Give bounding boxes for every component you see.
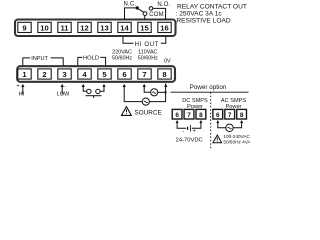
svg-text:14: 14 xyxy=(120,24,129,33)
svg-text:LOW: LOW xyxy=(57,92,70,98)
terminal 7 xyxy=(138,69,151,79)
220V source wire (terminal 6 to 8) xyxy=(123,84,166,102)
terminal 5 xyxy=(98,69,111,79)
svg-text:INPUT: INPUT xyxy=(31,56,48,62)
svg-text:24-70VDC: 24-70VDC xyxy=(176,138,203,144)
AC source symbol 220V xyxy=(142,98,149,105)
terminal 4 xyxy=(78,69,91,79)
svg-text:HOLD: HOLD xyxy=(83,56,99,62)
svg-text:13: 13 xyxy=(100,24,108,33)
terminal 15 xyxy=(138,22,151,32)
svg-text:N.O.: N.O. xyxy=(157,2,170,8)
hold switch between terminals 4-5 xyxy=(82,84,106,98)
battery symbol xyxy=(188,125,191,132)
svg-text:8: 8 xyxy=(240,112,244,119)
svg-text:8: 8 xyxy=(162,70,166,79)
svg-text:6: 6 xyxy=(122,70,126,79)
AC supply wiring xyxy=(216,120,243,128)
svg-text:RELAY CONTACT OUT: RELAY CONTACT OUT xyxy=(177,3,247,10)
svg-text:2: 2 xyxy=(42,70,46,79)
terminal 2 xyxy=(38,69,51,79)
svg-text:Power option: Power option xyxy=(190,84,227,91)
HOLD bracket over terminals 4-5 xyxy=(78,57,83,65)
svg-text:6: 6 xyxy=(175,112,179,119)
table divider (dashed) xyxy=(210,92,212,149)
svg-text:11: 11 xyxy=(60,24,69,33)
svg-text:RESISTIVE LOAD: RESISTIVE LOAD xyxy=(176,18,230,25)
wire COM to terminal 15 xyxy=(144,16,146,20)
warning triangle source xyxy=(122,107,132,116)
svg-text:COM: COM xyxy=(149,12,164,18)
svg-text:+: + xyxy=(16,84,19,90)
DC terminal 8 xyxy=(196,109,206,119)
110V source wire (terminal 7 to 8) xyxy=(143,84,168,93)
svg-text:100-240VAC: 100-240VAC xyxy=(223,134,250,139)
relay switch blade xyxy=(138,8,144,12)
terminal 14 xyxy=(118,22,131,32)
terminal 1 xyxy=(18,69,31,79)
terminal 12 xyxy=(78,22,91,32)
top terminal strip (terminals 9-16) xyxy=(15,20,176,37)
input LOW lead (terminal 3) xyxy=(61,84,64,95)
svg-text:3: 3 xyxy=(62,70,66,79)
AC terminal 7 xyxy=(225,109,235,119)
bottom terminal strip (terminals 1-8) xyxy=(17,66,175,82)
DC supply wiring xyxy=(176,120,203,128)
svg-text:HI: HI xyxy=(19,92,25,98)
svg-text:9: 9 xyxy=(22,24,26,33)
terminal 11 xyxy=(58,22,71,32)
terminal 6 xyxy=(118,69,131,79)
svg-text:10: 10 xyxy=(40,24,48,33)
AC terminal 8 xyxy=(237,109,247,119)
svg-text:7: 7 xyxy=(228,112,232,119)
svg-text:220VAC: 220VAC xyxy=(112,49,132,55)
svg-text:N.C.: N.C. xyxy=(124,1,137,7)
DC terminal 6 xyxy=(172,109,182,119)
terminal 3 xyxy=(58,69,71,79)
svg-text:-: - xyxy=(182,129,184,135)
COM contact circle xyxy=(143,12,147,16)
N.C. contact dot xyxy=(136,6,139,9)
INPUT bracket over terminals 1-3 xyxy=(23,58,30,66)
HI OUT bracket under terminals 14-16 xyxy=(123,37,134,44)
AC source symbol power xyxy=(226,124,233,131)
svg-text:DC SMPS: DC SMPS xyxy=(182,98,208,104)
svg-text:12: 12 xyxy=(80,24,88,33)
svg-text:7: 7 xyxy=(142,70,146,79)
svg-text:15: 15 xyxy=(140,24,149,33)
AC terminal 6 xyxy=(213,109,223,119)
terminal 10 xyxy=(38,22,51,32)
junction dot terminal 8 wire xyxy=(165,91,167,93)
svg-text:-: - xyxy=(64,83,66,89)
svg-text:HI OUT: HI OUT xyxy=(135,42,160,48)
AC source symbol 110V xyxy=(151,89,158,96)
input HI lead (terminal 1) xyxy=(21,84,24,95)
table header line xyxy=(171,91,249,93)
wire N.O. to terminal 16 xyxy=(153,8,166,19)
svg-text:SOURCE: SOURCE xyxy=(134,109,161,116)
svg-text:16: 16 xyxy=(160,24,168,33)
svg-text:8: 8 xyxy=(199,112,203,119)
terminal 8 xyxy=(158,69,171,79)
N.O. contact circle xyxy=(149,7,153,11)
svg-text:110VAC: 110VAC xyxy=(138,49,157,55)
svg-text:AC SMPS: AC SMPS xyxy=(221,98,246,104)
wire terminal14 to N.C. contact xyxy=(125,8,136,20)
svg-text:50/60Hz: 50/60Hz xyxy=(112,56,132,62)
svg-text:0V: 0V xyxy=(164,58,171,64)
terminal 16 xyxy=(158,22,171,32)
svg-text:50/60Hz 4VA: 50/60Hz 4VA xyxy=(223,140,250,145)
svg-text:: 250VAC 3A 1c: : 250VAC 3A 1c xyxy=(176,11,223,18)
svg-text:7: 7 xyxy=(187,112,191,119)
DC terminal 7 xyxy=(184,109,194,119)
terminal 13 xyxy=(98,22,111,32)
terminal 9 xyxy=(18,22,31,32)
svg-text:+: + xyxy=(193,129,196,135)
warning triangle AC power xyxy=(213,135,222,143)
svg-text:6: 6 xyxy=(216,112,220,119)
svg-text:50/60Hz: 50/60Hz xyxy=(138,56,158,62)
